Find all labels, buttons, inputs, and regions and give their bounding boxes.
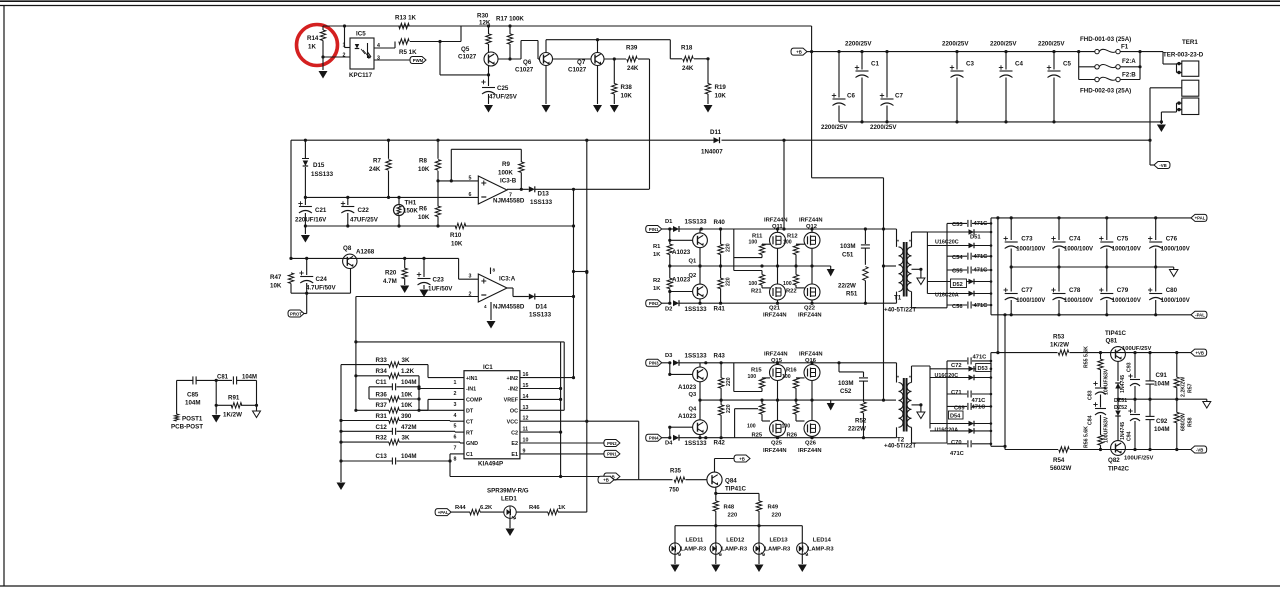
svg-text:-PAL: -PAL [1195,313,1205,318]
svg-text:12K: 12K [479,20,491,27]
svg-text:R30: R30 [477,13,489,20]
svg-text:PIN2: PIN2 [649,301,659,306]
svg-text:1: 1 [454,380,457,386]
svg-text:8: 8 [493,268,496,273]
svg-text:220UF/16V: 220UF/16V [295,217,327,224]
svg-text:C77: C77 [1021,287,1033,294]
svg-text:471C: 471C [972,405,987,411]
svg-text:Q8: Q8 [343,245,352,252]
svg-text:2: 2 [343,53,346,59]
svg-text:1000/100V: 1000/100V [1064,298,1093,304]
svg-text:C1: C1 [871,61,879,68]
svg-text:104M: 104M [1154,381,1169,388]
svg-text:R17 100K: R17 100K [496,16,524,23]
svg-text:A1268: A1268 [356,249,375,256]
svg-text:R16: R16 [786,368,797,374]
svg-text:10K: 10K [715,93,727,100]
svg-text:Q25: Q25 [771,441,783,447]
svg-text:D4: D4 [665,441,673,447]
svg-text:C6: C6 [847,93,855,100]
svg-text:IRFZ44N: IRFZ44N [799,218,823,224]
svg-text:TIP41C: TIP41C [1105,330,1127,337]
svg-text:C1027: C1027 [568,67,587,74]
svg-text:1K: 1K [558,505,566,511]
svg-text:C24: C24 [316,276,328,283]
svg-text:10K: 10K [418,214,430,221]
svg-text:22/2W: 22/2W [848,426,866,433]
svg-text:IC3:A: IC3:A [499,276,516,283]
svg-text:Q22: Q22 [804,306,815,312]
svg-text:C2: C2 [511,430,518,436]
svg-text:TER1: TER1 [1182,39,1198,46]
svg-text:471C: 471C [974,254,989,260]
svg-text:TH1: TH1 [405,200,417,207]
svg-text:680/2W: 680/2W [1181,413,1187,431]
svg-text:C72: C72 [951,363,962,369]
svg-text:R15: R15 [751,368,762,374]
svg-text:R53: R53 [1053,334,1065,341]
svg-text:1SS133: 1SS133 [685,440,708,447]
svg-text:1: 1 [343,43,346,49]
svg-text:R34: R34 [376,368,388,375]
svg-text:FHD-001-03 (25A): FHD-001-03 (25A) [1080,36,1131,43]
svg-text:2200/25V: 2200/25V [870,124,897,131]
svg-text:1N4745: 1N4745 [1120,375,1126,393]
svg-text:6: 6 [469,192,472,198]
svg-text:C80: C80 [1166,287,1178,294]
svg-text:104M: 104M [401,379,416,386]
svg-text:IC1: IC1 [483,364,493,371]
svg-text:TIP41C: TIP41C [725,486,747,493]
svg-text:1000/100V: 1000/100V [1064,247,1093,253]
svg-text:*: * [909,376,911,382]
svg-text:C94: C94 [1127,431,1133,441]
svg-text:A1023: A1023 [678,384,697,391]
svg-text:220: 220 [728,513,738,519]
svg-text:1SS133: 1SS133 [311,171,334,178]
svg-text:C93: C93 [1127,362,1133,372]
svg-text:COMP: COMP [466,398,483,404]
svg-text:22/2W: 22/2W [838,283,856,290]
svg-text:D3: D3 [665,353,673,359]
svg-text:R19: R19 [715,84,727,91]
svg-text:R5 1K: R5 1K [399,49,417,56]
svg-text:C4: C4 [1015,61,1023,68]
svg-text:100K: 100K [498,170,513,177]
svg-text:-VB: -VB [1196,447,1203,452]
svg-text:220: 220 [772,513,782,519]
svg-text:R10: R10 [450,232,462,239]
svg-text:Q3: Q3 [689,392,698,398]
svg-text:C53: C53 [952,222,963,228]
svg-text:220: 220 [726,377,732,386]
svg-text:Q26: Q26 [805,441,817,447]
svg-text:OC: OC [510,409,518,415]
svg-text:R2: R2 [653,278,660,284]
svg-text:750: 750 [669,488,680,494]
svg-text:Q16: Q16 [805,358,817,364]
svg-text:1SS133: 1SS133 [685,353,708,360]
svg-text:VCC: VCC [507,419,518,425]
svg-text:D51: D51 [970,235,981,241]
svg-text:Q82: Q82 [1108,457,1120,464]
svg-text:1SS133: 1SS133 [685,306,708,313]
svg-text:6: 6 [454,435,457,441]
svg-text:R39: R39 [626,45,638,52]
svg-text:LED13: LED13 [770,538,789,544]
svg-text:1SS133: 1SS133 [530,199,553,206]
svg-text:1K: 1K [653,286,661,292]
svg-text:1N4745: 1N4745 [1120,422,1126,440]
svg-text:R32: R32 [376,435,388,442]
svg-text:2200/25V: 2200/25V [990,41,1017,48]
svg-text:LAMP-R3: LAMP-R3 [681,547,708,553]
svg-text:R21: R21 [751,289,762,295]
svg-text:1UF/50V: 1UF/50V [428,286,453,293]
svg-text:R49: R49 [768,505,779,511]
svg-text:LED1: LED1 [501,496,517,503]
svg-text:+IN2: +IN2 [506,376,518,382]
svg-text:10K: 10K [621,93,633,100]
svg-text:10K: 10K [418,166,430,173]
svg-text:1K: 1K [653,252,661,258]
svg-text:471C: 471C [974,268,989,274]
svg-text:A1023: A1023 [678,413,697,420]
svg-text:R6: R6 [419,206,427,213]
svg-text:3K: 3K [402,435,410,442]
svg-text:E1: E1 [511,452,518,458]
svg-text:C25: C25 [497,85,509,92]
svg-text:*: * [897,240,899,246]
svg-text:C70: C70 [951,440,962,446]
svg-text:390: 390 [401,413,412,420]
svg-text:C21: C21 [315,207,327,214]
svg-text:PIN1: PIN1 [649,227,659,232]
svg-text:C52: C52 [840,388,852,395]
svg-text:100UF/25V: 100UF/25V [1124,456,1153,462]
svg-text:R33: R33 [376,357,388,364]
svg-text:VREF: VREF [504,398,519,404]
svg-text:R37: R37 [376,402,388,409]
svg-text:471C: 471C [974,221,989,227]
svg-text:1K/2W: 1K/2W [223,412,242,419]
svg-text:100: 100 [783,281,792,287]
svg-text:47UF/25V: 47UF/25V [350,217,379,224]
svg-text:100: 100 [749,240,758,246]
svg-text:C85: C85 [187,392,199,399]
svg-text:KIA494P: KIA494P [478,461,503,468]
svg-text:+B: +B [739,456,745,461]
svg-text:C11: C11 [376,379,388,386]
svg-text:R44: R44 [455,505,466,511]
svg-text:2200/25V: 2200/25V [942,41,969,48]
svg-text:100: 100 [782,424,791,430]
svg-text:NJM4558D: NJM4558D [493,198,525,205]
svg-text:D1: D1 [665,219,673,225]
svg-text:R55 5.6K: R55 5.6K [1084,346,1090,368]
svg-text:10K: 10K [401,402,413,409]
svg-text:RT: RT [466,430,474,436]
svg-text:104M: 104M [242,375,257,381]
svg-text:Q21: Q21 [769,306,781,312]
svg-text:1000/100V: 1000/100V [1016,298,1045,304]
svg-text:R13 1K: R13 1K [395,15,417,22]
svg-text:1.2K: 1.2K [401,368,415,375]
svg-text:C75: C75 [1117,236,1129,243]
svg-text:C7: C7 [895,93,903,100]
svg-text:220: 220 [726,243,732,252]
svg-text:R41: R41 [714,306,726,313]
svg-text:R54: R54 [1053,457,1065,464]
svg-text:R31: R31 [376,413,388,420]
svg-text:C13: C13 [376,453,388,460]
svg-text:471C: 471C [973,354,988,360]
svg-text:471C: 471C [950,451,965,457]
svg-text:1000/100V: 1000/100V [1112,298,1141,304]
svg-text:2200/25V: 2200/25V [845,41,872,48]
svg-text:C22: C22 [358,207,370,214]
svg-text:D15: D15 [313,162,325,169]
svg-text:3: 3 [469,274,472,280]
svg-text:100UF/25V: 100UF/25V [1122,346,1151,352]
svg-text:-IN2: -IN2 [508,387,518,393]
svg-text:3: 3 [454,402,457,408]
svg-text:2.2K/2W: 2.2K/2W [1181,377,1187,397]
svg-text:24K: 24K [682,65,694,72]
svg-text:24K: 24K [369,166,381,173]
svg-text:100: 100 [783,240,792,246]
svg-text:R18: R18 [681,45,693,52]
svg-text:D2: D2 [665,307,672,313]
svg-text:104M: 104M [401,453,416,460]
svg-text:471C: 471C [972,398,987,404]
svg-text:C1027: C1027 [458,54,477,61]
svg-text:PCB-POST: PCB-POST [171,424,203,431]
svg-text:IRFZ44N: IRFZ44N [764,352,788,358]
svg-text:2200/25V: 2200/25V [1038,41,1065,48]
svg-text:KPC117: KPC117 [349,72,373,79]
svg-text:C81: C81 [217,375,229,381]
svg-text:D54: D54 [950,414,961,420]
svg-text:4: 4 [454,413,457,419]
svg-text:100: 100 [782,374,791,380]
svg-text:C12: C12 [376,424,388,431]
svg-text:C92: C92 [1156,418,1168,425]
svg-text:4.7M: 4.7M [383,278,397,285]
svg-text:-VB: -VB [1159,163,1166,168]
svg-text:D53: D53 [978,366,988,372]
svg-text:4: 4 [484,304,487,309]
svg-text:10K: 10K [270,283,282,290]
svg-text:150K: 150K [403,208,418,215]
svg-text:1000/100V: 1000/100V [1112,247,1141,253]
svg-text:100UF/63V: 100UF/63V [1104,368,1110,395]
svg-text:IRFZ44N: IRFZ44N [798,313,822,319]
svg-text:T1: T1 [894,295,902,302]
svg-text:D11: D11 [710,129,722,136]
svg-text:R36: R36 [376,391,388,398]
svg-text:100: 100 [749,281,758,287]
svg-text:+VB: +VB [1195,350,1203,355]
svg-text:R48: R48 [724,505,735,511]
svg-text:3K: 3K [402,357,410,364]
svg-text:R47: R47 [270,274,282,281]
svg-text:R52: R52 [855,418,867,425]
svg-text:1K: 1K [308,44,316,51]
svg-text:A1023: A1023 [672,277,691,284]
svg-text:10K: 10K [451,241,463,248]
svg-text:C79: C79 [1117,287,1129,294]
svg-text:R14: R14 [307,35,319,42]
svg-text:C56: C56 [952,304,963,310]
svg-text:C23: C23 [433,277,445,284]
svg-text:R57: R57 [1188,383,1194,393]
svg-text:C78: C78 [1069,287,1081,294]
svg-text:SPR39MV-R/G: SPR39MV-R/G [487,488,529,495]
svg-text:R51: R51 [846,291,858,298]
svg-text:R46: R46 [529,505,540,511]
svg-text:R40: R40 [714,219,726,226]
svg-text:GND: GND [466,441,478,447]
svg-text:3: 3 [377,56,380,62]
svg-text:R38: R38 [621,84,633,91]
svg-text:C55: C55 [952,269,963,275]
svg-text:7: 7 [454,446,457,452]
svg-text:104M: 104M [1154,426,1169,433]
svg-text:R20: R20 [385,270,397,277]
svg-text:C54: C54 [952,255,963,261]
svg-text:E2: E2 [511,441,518,447]
svg-text:NJM4558D: NJM4558D [493,304,525,311]
svg-text:F1: F1 [1121,44,1129,51]
svg-text:100UF/63V: 100UF/63V [1104,416,1110,443]
svg-text:+IN1: +IN1 [466,376,478,382]
svg-text:471C: 471C [974,303,989,309]
svg-text:U16C20A: U16C20A [935,428,959,434]
svg-text:1000/100V: 1000/100V [1016,247,1045,253]
svg-text:PIN3: PIN3 [649,361,659,366]
svg-text:220: 220 [726,277,732,286]
svg-text:R1: R1 [653,244,661,250]
svg-text:IRFZ44N: IRFZ44N [798,448,822,454]
svg-text:100: 100 [748,374,757,380]
svg-text:103M: 103M [838,380,853,387]
svg-text:1N4007: 1N4007 [701,149,723,156]
svg-text:C91: C91 [1156,372,1168,379]
svg-text:100: 100 [747,424,756,430]
svg-text:C83: C83 [1088,390,1094,400]
svg-text:8: 8 [454,456,457,462]
svg-text:10K: 10K [401,391,413,398]
svg-text:U16C20C: U16C20C [935,373,959,379]
svg-text:103M: 103M [840,243,855,250]
svg-text:1SS133: 1SS133 [685,219,708,226]
svg-text:R22: R22 [786,289,797,295]
svg-text:*: * [909,240,911,246]
svg-text:2200/25V: 2200/25V [821,124,848,131]
svg-text:IRFZ44N: IRFZ44N [764,218,788,224]
svg-text:IRFZ44N: IRFZ44N [799,352,823,358]
svg-text:5: 5 [454,424,457,430]
svg-text:A1023: A1023 [672,249,691,256]
svg-text:2: 2 [454,391,457,397]
svg-text:PWM: PWM [413,58,424,63]
svg-text:Q81: Q81 [1106,338,1118,345]
svg-text:C71: C71 [951,390,962,396]
svg-text:PROT: PROT [290,311,302,316]
svg-text:Q15: Q15 [771,358,783,364]
svg-text:R43: R43 [714,353,726,360]
svg-text:472M: 472M [401,424,416,431]
svg-text:LAMP-R3: LAMP-R3 [808,547,835,553]
svg-text:1000/100V: 1000/100V [1161,298,1190,304]
svg-text:U16C20C: U16C20C [935,240,959,246]
svg-text:R7: R7 [373,158,381,165]
svg-text:R9: R9 [502,161,510,168]
svg-text:Q7: Q7 [577,59,586,66]
svg-text:560/2W: 560/2W [1050,465,1071,472]
svg-text:D14: D14 [536,304,548,311]
svg-text:PIN2: PIN2 [607,441,617,446]
svg-text:LED14: LED14 [813,538,832,544]
svg-text:R35: R35 [670,469,682,475]
svg-text:R91: R91 [228,395,240,402]
svg-text:LAMP-R3: LAMP-R3 [765,547,792,553]
svg-text:FHD-002-03 (25A): FHD-002-03 (25A) [1080,88,1131,95]
svg-text:6.2K: 6.2K [480,505,493,511]
svg-text:Q5: Q5 [461,46,470,53]
svg-text:+PAL: +PAL [438,510,449,515]
svg-text:5: 5 [469,176,472,182]
svg-text:1K/2W: 1K/2W [1050,342,1069,349]
svg-text:D52: D52 [953,282,963,288]
svg-text:C76: C76 [1166,236,1178,243]
svg-text:Q1: Q1 [689,259,698,265]
svg-text:F2:A: F2:A [1122,58,1136,65]
svg-text:C51: C51 [842,252,854,259]
svg-text:R8: R8 [419,158,427,165]
svg-text:D13: D13 [538,191,550,198]
svg-text:47UF/25V: 47UF/25V [489,94,518,101]
svg-text:DZ52: DZ52 [1114,405,1127,411]
svg-text:+PAL: +PAL [1195,216,1206,221]
svg-text:1SS133: 1SS133 [529,312,552,319]
svg-text:IRFZ44N: IRFZ44N [763,448,787,454]
svg-text:PIN1: PIN1 [607,452,617,457]
svg-text:C74: C74 [1069,236,1081,243]
svg-text:C1027: C1027 [515,67,534,74]
svg-text:IRFZ44N: IRFZ44N [763,313,787,319]
svg-text:IC3-B: IC3-B [500,178,517,185]
svg-text:R56 5.6K: R56 5.6K [1084,426,1090,448]
svg-text:TIP42C: TIP42C [1108,466,1130,473]
svg-text:24K: 24K [627,65,639,72]
svg-text:104M: 104M [185,400,200,407]
svg-text:CT: CT [466,419,474,425]
svg-text:+B: +B [796,49,802,54]
svg-text:LAMP-R3: LAMP-R3 [721,547,748,553]
svg-text:C73: C73 [1021,236,1033,243]
svg-text:R58: R58 [1188,417,1194,427]
svg-text:-IN1: -IN1 [466,387,476,393]
svg-text:R42: R42 [714,440,726,447]
svg-text:TER-003-23-D: TER-003-23-D [1163,52,1204,59]
svg-text:C5: C5 [1063,61,1071,68]
svg-text:220: 220 [726,404,732,413]
svg-text:Q4: Q4 [689,407,698,413]
svg-text:LED11: LED11 [686,538,704,544]
svg-text:U16C20A: U16C20A [935,293,959,299]
